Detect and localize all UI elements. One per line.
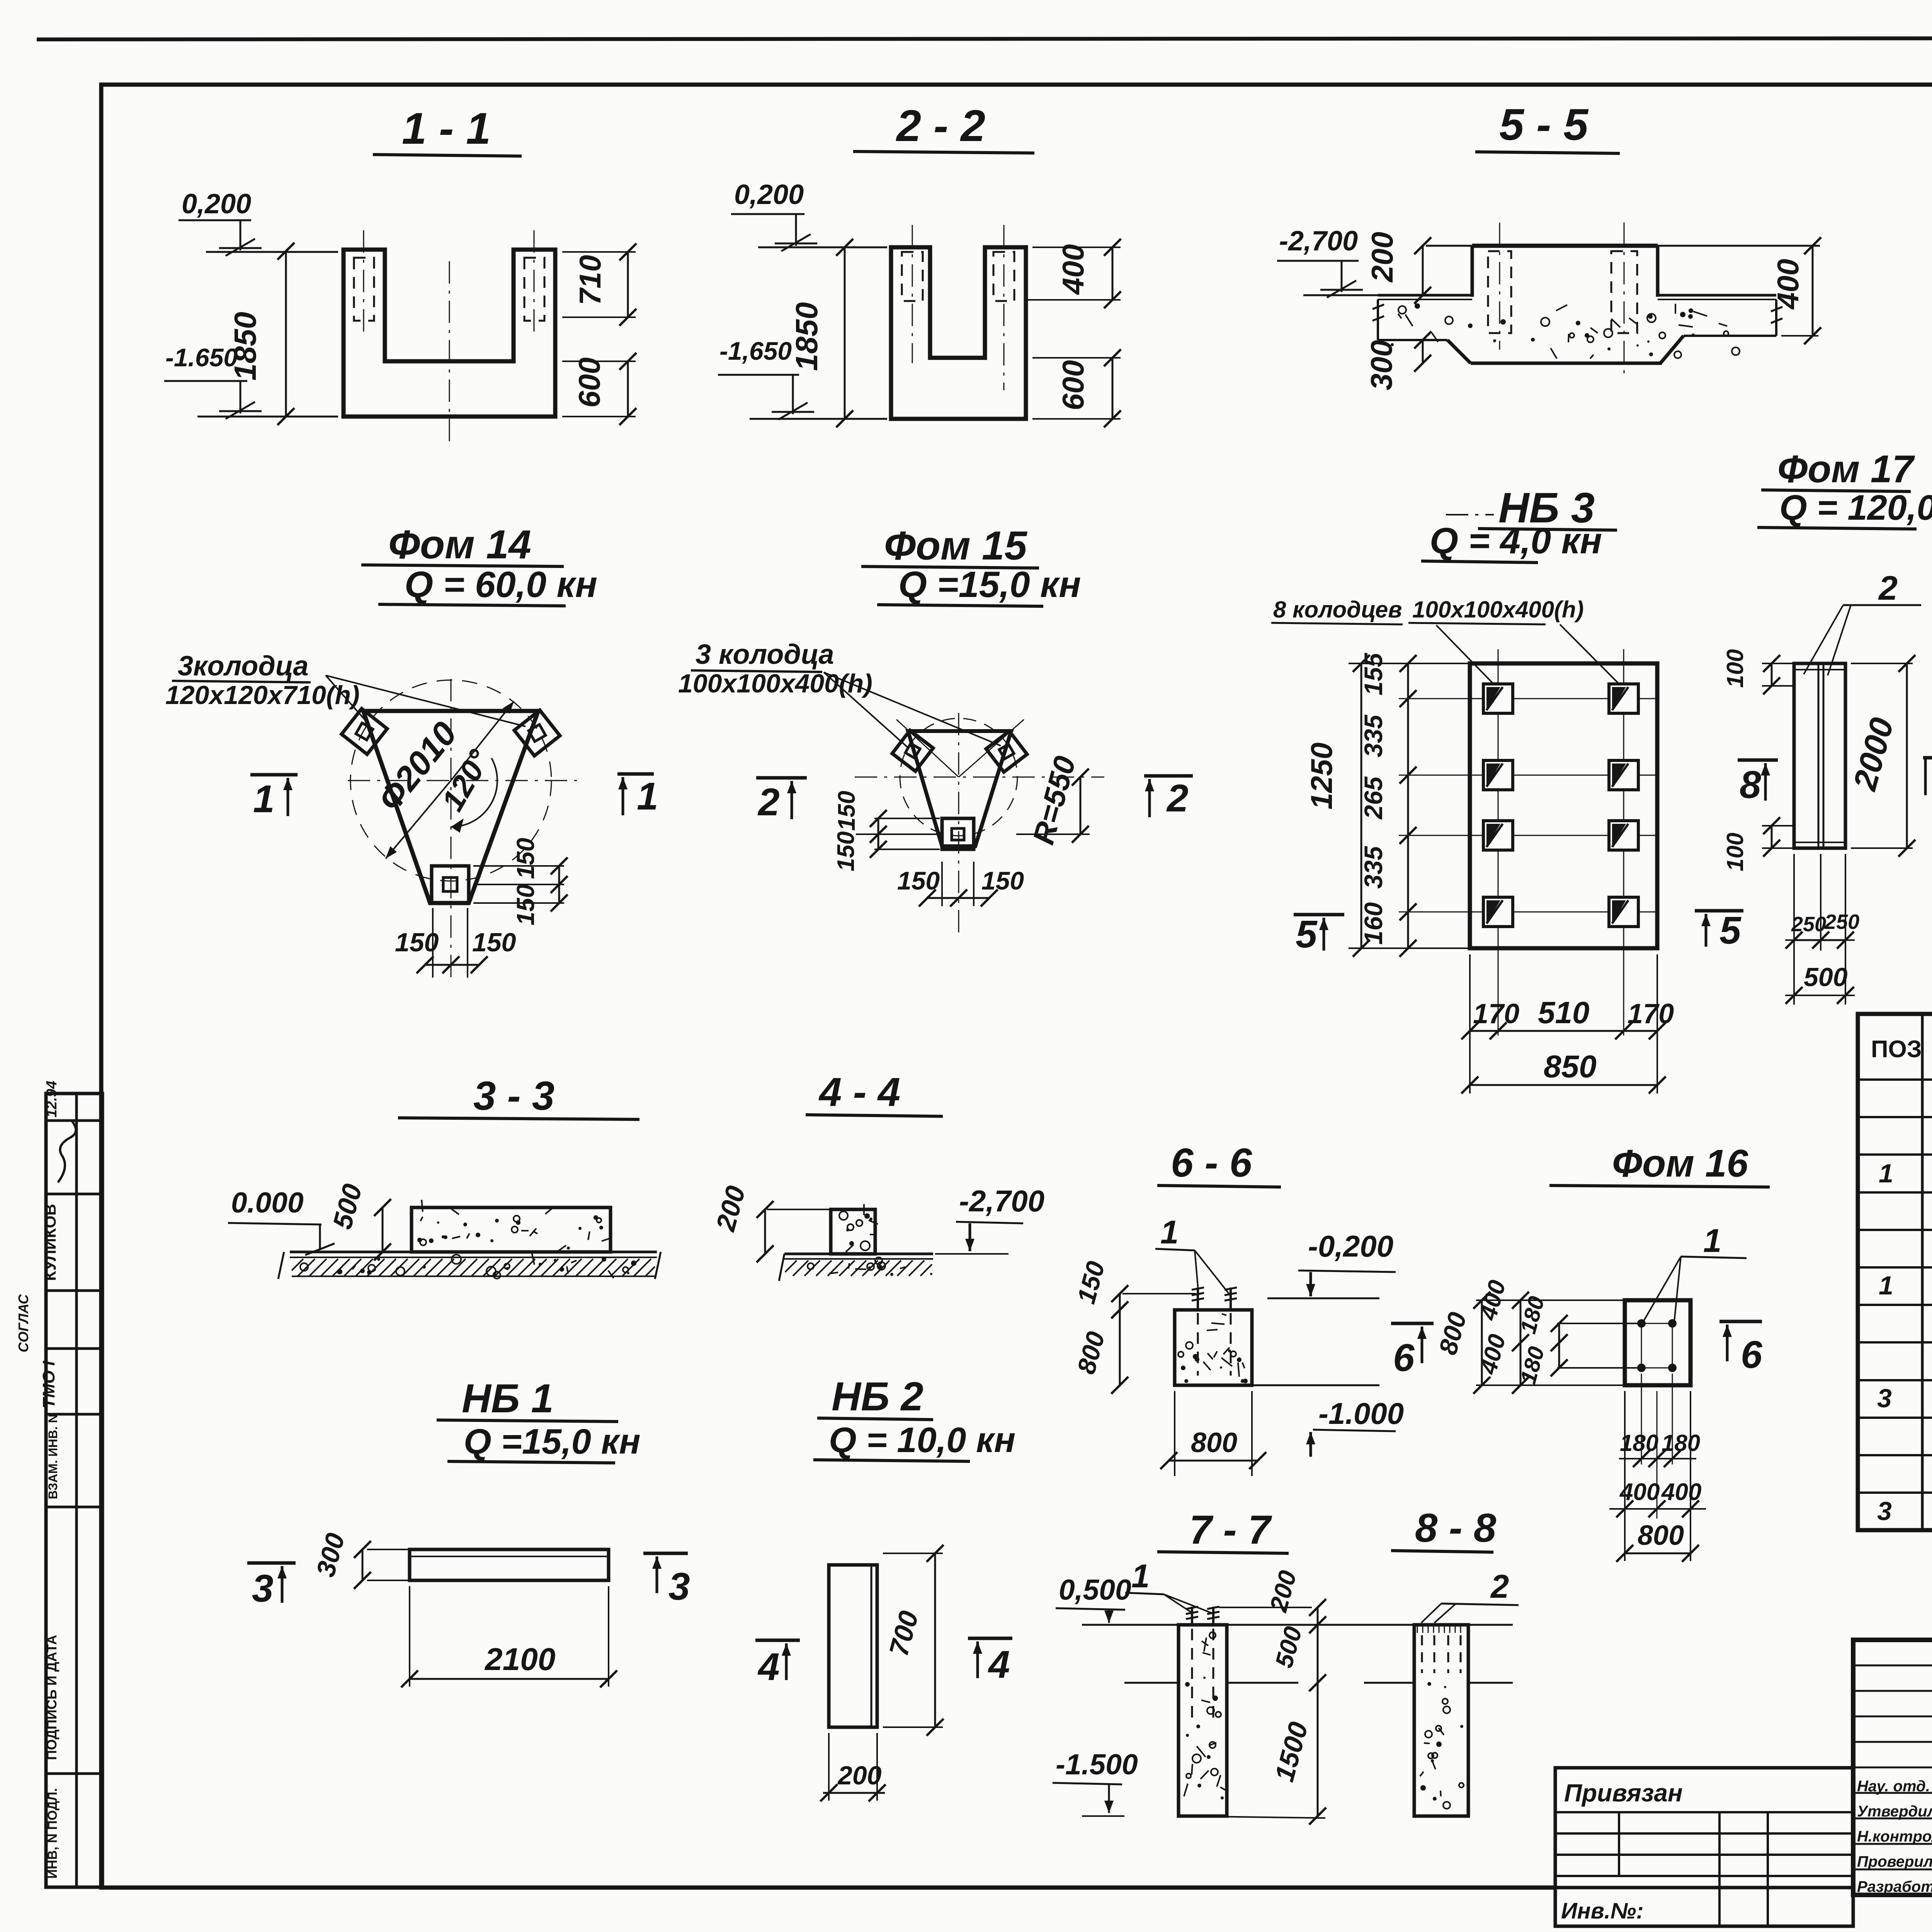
dimensions 150 800 left of 6-6: [1122, 1293, 1123, 1294]
svg-text:3: 3: [252, 1567, 274, 1610]
concrete speckle 5-5: [1629, 318, 1637, 324]
svg-text:-1.000: -1.000: [1318, 1396, 1404, 1430]
svg-text:150: 150: [395, 928, 439, 957]
НБ 1 plan rectangle: [410, 1549, 609, 1580]
bottom dimension 800 at 6-6: [1174, 1391, 1175, 1476]
3-3 ground strip end breaks: [278, 1252, 284, 1279]
sidebar signature squiggle: [58, 1121, 76, 1182]
ground line left of 1-1: [206, 251, 338, 253]
pocket top-right at Фом 14: [514, 710, 560, 756]
svg-text:ПОДПИСЬ И ДАТА: ПОДПИСЬ И ДАТА: [44, 1635, 60, 1760]
leader fan lines at Фом 15 center: [896, 719, 959, 777]
left sidebar stamp column: [46, 1094, 102, 1887]
6-6 block outline: [1175, 1310, 1252, 1385]
svg-text:КУЛИКОВ: КУЛИКОВ: [41, 1204, 59, 1281]
svg-text:4: 4: [988, 1643, 1010, 1686]
svg-text:120х120х710(h): 120х120х710(h): [165, 680, 360, 710]
svg-text:8 - 8: 8 - 8: [1415, 1505, 1497, 1551]
svg-text:2: 2: [1878, 569, 1898, 607]
svg-text:Q = 4,0 кн: Q = 4,0 кн: [1430, 520, 1602, 561]
Фом 15 bolt circle dashed: [900, 718, 1017, 836]
section mark 5 right at НБ 3: [1695, 909, 1743, 913]
svg-text:5: 5: [1296, 913, 1318, 956]
title block outer: [1853, 1640, 1932, 1895]
svg-text:150: 150: [472, 928, 516, 957]
svg-text:СОГЛАС: СОГЛАС: [15, 1294, 31, 1352]
svg-text:850: 850: [1544, 1049, 1597, 1084]
svg-text:150: 150: [897, 866, 940, 895]
svg-text:Фом 17: Фом 17: [1777, 447, 1915, 491]
НБ 3 title: [1446, 514, 1494, 515]
svg-text:ПОЗ: ПОЗ: [1871, 1036, 1922, 1063]
svg-text:7 - 7: 7 - 7: [1189, 1507, 1272, 1553]
svg-text:3: 3: [668, 1565, 690, 1608]
svg-text:ВЗАМ. ИНВ. N: ВЗАМ. ИНВ. N: [46, 1414, 60, 1499]
section mark 8 right at Фом 17: [1923, 756, 1932, 760]
Фом 17 plan outline: [1794, 663, 1845, 848]
svg-text:600: 600: [1056, 360, 1090, 410]
dimensions 150 150 right of bottom pocket Фом 14: [473, 865, 564, 867]
svg-text:Разработал: Разработал: [1857, 1878, 1932, 1895]
dimension 200 at НБ 2: [828, 1733, 830, 1801]
svg-text:1250: 1250: [1304, 742, 1338, 810]
floor line left of 6-6: [1122, 1293, 1196, 1294]
dimension 200 at 4-4: [767, 1209, 831, 1210]
bottom extension line 2-2: [750, 418, 887, 420]
svg-text:155: 155: [1359, 653, 1388, 696]
svg-text:500: 500: [1804, 963, 1848, 992]
dimension 100 top left of Фом 17: [1762, 663, 1794, 664]
svg-text:150: 150: [981, 866, 1024, 895]
bottom dimensions 180 180 at Фом 16: [1641, 1374, 1642, 1464]
Фом 14 horizontal axis: [348, 780, 577, 781]
Ф2010 diameter line at Фом 14: [386, 781, 451, 859]
Фом 16 plan square: [1625, 1300, 1690, 1385]
foundation 5-5 right lower side: [1775, 299, 1777, 336]
svg-text:ТМО I: ТМО I: [39, 1361, 58, 1408]
svg-text:1: 1: [1879, 1271, 1893, 1300]
foundation U outline 1-1: [344, 250, 555, 417]
svg-text:100: 100: [1722, 649, 1748, 688]
svg-text:100х100х400(h): 100х100х400(h): [1412, 597, 1584, 622]
bottom dimensions 150 150 at Фом 14: [432, 908, 434, 978]
svg-text:160: 160: [1359, 902, 1388, 945]
НБ 3 bottom dimension 850: [1470, 1084, 1657, 1086]
svg-text:600: 600: [572, 357, 606, 408]
section mark 1 right at Фом 14: [617, 772, 654, 776]
svg-text:-0,200: -0,200: [1308, 1229, 1393, 1263]
pocket top-left at Фом 15: [892, 730, 933, 771]
pocket top-left at Фом 14: [342, 709, 387, 754]
bottom dimension 500 at Фом 17: [1785, 995, 1855, 996]
svg-text:200: 200: [1365, 232, 1399, 283]
anchor dashes at 8-8: [1421, 1635, 1423, 1673]
svg-text:150: 150: [512, 838, 539, 879]
svg-text:0,500: 0,500: [1059, 1573, 1131, 1606]
svg-text:100: 100: [1722, 833, 1748, 871]
svg-text:6: 6: [1741, 1333, 1763, 1376]
dimension 2100 at НБ 1: [409, 1586, 410, 1687]
outer top border line: [37, 38, 1932, 39]
svg-text:150: 150: [833, 832, 859, 871]
НБ 3 pocket column axis right: [1623, 649, 1624, 1036]
svg-text:0.000: 0.000: [231, 1186, 304, 1219]
bottom extension line 1-1: [197, 416, 338, 418]
svg-text:Q =15,0 кн: Q =15,0 кн: [898, 564, 1081, 605]
привязан box: [1555, 1768, 1853, 1926]
svg-text:250: 250: [1824, 910, 1859, 934]
dimension 500 at 3-3: [382, 1207, 384, 1252]
anchor bolts with zigzag at 7-7: [1191, 1607, 1193, 1626]
lower soil line at 7-7: [1124, 1682, 1179, 1684]
6-6 block speckle: [1186, 1342, 1193, 1349]
svg-text:1: 1: [1879, 1159, 1893, 1188]
svg-text:2 - 2: 2 - 2: [896, 101, 985, 151]
leader lines at Фом 14: [326, 675, 369, 724]
8-8 top hatch cap: [1417, 1626, 1418, 1633]
svg-text:800: 800: [1191, 1427, 1237, 1458]
Фом 15 plan outline: [908, 731, 1011, 846]
svg-text:400: 400: [1056, 244, 1090, 295]
svg-text:1: 1: [1131, 1558, 1150, 1595]
Фом 16 anchor bolts: [1637, 1319, 1646, 1328]
4-4 ground strip end breaks: [779, 1254, 784, 1281]
НБ 3 plan rectangle: [1470, 663, 1657, 948]
svg-text:5: 5: [1719, 909, 1742, 952]
dimension 600 at 1-1: [562, 361, 636, 362]
svg-text:335: 335: [1359, 846, 1388, 889]
svg-text:-2,700: -2,700: [959, 1184, 1044, 1218]
title block signature grid: [1853, 1665, 1932, 1667]
bottom extension at 7-7: [1179, 1816, 1325, 1818]
svg-text:8 колодцев: 8 колодцев: [1273, 597, 1402, 622]
svg-text:Фом 14: Фом 14: [388, 522, 531, 567]
dimension R=550 at Фом 15: [1016, 833, 1090, 835]
foundation 5-5 right pedestal edge: [1656, 246, 1660, 297]
svg-text:Фом 15: Фом 15: [884, 523, 1027, 568]
section mark 2 right at Фом 15: [1144, 774, 1193, 778]
section mark 4 right at НБ 2: [968, 1637, 1012, 1640]
ground line at 7-7: [1082, 1624, 1179, 1626]
section mark 4 left at НБ 2: [755, 1639, 800, 1642]
svg-text:3: 3: [1877, 1497, 1892, 1526]
anchor bolts with zigzag at 6-6: [1197, 1287, 1199, 1311]
svg-text:400: 400: [1661, 1479, 1701, 1505]
svg-text:170: 170: [1473, 998, 1519, 1029]
Фом 15 horizontal axis: [855, 777, 1104, 778]
3-3 ground strip hatch: [291, 1258, 293, 1260]
dimension 300 at НБ 1: [367, 1549, 410, 1550]
svg-text:1: 1: [253, 777, 275, 821]
pocket bottom at Фом 15: [942, 818, 974, 849]
Фом 15 vertical axis: [958, 713, 959, 935]
svg-text:-2,700: -2,700: [1279, 226, 1358, 257]
svg-text:-1,650: -1,650: [719, 337, 792, 365]
svg-text:8: 8: [1740, 763, 1761, 806]
svg-text:2100: 2100: [484, 1642, 555, 1677]
Фом 14 vertical axis: [451, 679, 452, 978]
svg-text:335: 335: [1359, 714, 1388, 757]
ground line at 8-8: [1333, 1624, 1414, 1626]
4-4 block: [831, 1209, 875, 1254]
anchor well right 2-2: [993, 252, 1014, 301]
svg-text:Q =15,0 кн: Q =15,0 кн: [464, 1422, 641, 1461]
4-4 block speckle: [870, 1234, 876, 1235]
section mark 2 left at Фом 15: [756, 776, 807, 780]
svg-text:Н.контроль: Н.контроль: [1857, 1828, 1932, 1845]
dimension 700 at НБ 2: [883, 1553, 943, 1554]
bottom dimensions 400 400 at Фом 16: [1624, 1391, 1626, 1561]
svg-text:ИНВ, N ПОДЛ.: ИНВ, N ПОДЛ.: [45, 1788, 60, 1879]
dimension 300 at 5-5: [1422, 340, 1424, 363]
svg-text:250: 250: [1791, 913, 1826, 936]
dimension 200 at 5-5: [1422, 246, 1424, 295]
svg-text:180: 180: [1620, 1430, 1658, 1456]
svg-text:1: 1: [637, 775, 658, 818]
Фом 17 end cap lines: [1794, 669, 1845, 670]
svg-text:3: 3: [1877, 1384, 1892, 1413]
7-7 pier outline: [1179, 1625, 1227, 1816]
level line -2.700 at 5-5: [1303, 294, 1379, 296]
Фом 16 bolt connection lines: [1641, 1323, 1672, 1324]
4-4 base plate double line: [784, 1253, 933, 1255]
svg-text:Q = 10,0 кн: Q = 10,0 кн: [829, 1420, 1015, 1460]
ground line left of 2-2: [758, 247, 887, 248]
foundation 5-5 left pedestal edge: [1471, 246, 1474, 297]
svg-text:1850: 1850: [789, 302, 824, 371]
pocket bottom at Фом 14: [432, 866, 469, 903]
svg-text:400: 400: [1771, 259, 1805, 310]
dimension 2000 right of Фом 17: [1851, 663, 1913, 664]
section mark 3 right at НБ 1: [643, 1552, 688, 1555]
svg-text:-1.650: -1.650: [165, 343, 238, 372]
svg-text:3 колодца: 3 колодца: [696, 639, 834, 670]
svg-text:1: 1: [1160, 1214, 1179, 1251]
svg-text:Q = 120,0 кн: Q = 120,0 кн: [1779, 488, 1932, 527]
lower soil line at 8-8: [1364, 1682, 1414, 1684]
parts table grid: [1858, 1014, 1932, 1530]
svg-text:2: 2: [1166, 777, 1189, 820]
svg-text:6: 6: [1393, 1336, 1415, 1379]
svg-text:800: 800: [1638, 1520, 1684, 1551]
3-3 slab block: [412, 1207, 611, 1252]
bottom dimension 800 at Фом 16: [1625, 1553, 1690, 1554]
dimension 400 at 5-5: [1781, 335, 1818, 337]
anchor well left 2-2: [902, 252, 923, 301]
dimension 1850 at 1-1: [285, 251, 287, 417]
svg-text:300: 300: [1364, 340, 1398, 390]
foundation 5-5 top edge: [1426, 245, 1820, 247]
pocket top-right at Фом 15: [986, 731, 1027, 772]
svg-text:Q = 60,0 кн: Q = 60,0 кн: [405, 564, 597, 605]
svg-text:150: 150: [833, 791, 860, 831]
floor line right of 6-6: [1267, 1298, 1379, 1299]
Фом 14 bolt circle dashed: [350, 680, 551, 881]
svg-text:12.94: 12.94: [44, 1081, 60, 1117]
7-7 pier speckle: [1202, 1653, 1211, 1655]
svg-text:5 - 5: 5 - 5: [1499, 100, 1589, 150]
svg-text:3 - 3: 3 - 3: [473, 1073, 554, 1119]
leader lines at Фом 15: [824, 672, 908, 748]
section mark 1 left at Фом 14: [250, 773, 298, 777]
svg-text:180: 180: [1662, 1430, 1700, 1456]
svg-text:НБ 1: НБ 1: [462, 1376, 554, 1421]
section mark 6 right at Фом 16: [1719, 1320, 1762, 1323]
НБ 3 bottom dimensions 170 510 170: [1469, 954, 1471, 1094]
foundation U outline 2-2: [891, 247, 1026, 419]
svg-text:Фом 16: Фом 16: [1612, 1142, 1749, 1185]
svg-text:Утвердил: Утвердил: [1857, 1803, 1932, 1820]
svg-text:-1.500: -1.500: [1056, 1748, 1138, 1781]
dimension 710 at 1-1: [562, 251, 636, 253]
left dimensions 800 400 400 180 180 at Фом 16: [1476, 1299, 1625, 1301]
Фом 17 inner joint lines: [1818, 663, 1820, 848]
bottom dimensions 250 250 at Фом 17: [1793, 854, 1795, 1005]
svg-text:Нау. отд.: Нау. отд.: [1857, 1778, 1930, 1795]
svg-text:Проверил: Проверил: [1857, 1853, 1932, 1870]
svg-text:6 - 6: 6 - 6: [1171, 1140, 1252, 1185]
НБ 3 pocket rows and pockets: [1399, 698, 1657, 699]
svg-text:170: 170: [1628, 998, 1674, 1029]
8-8 pier speckle: [1420, 1772, 1423, 1776]
bottom dimensions 150 150 at Фом 15: [941, 862, 943, 906]
foundation 5-5 lower outline: [1378, 339, 1447, 341]
svg-text:510: 510: [1538, 995, 1589, 1030]
anchor well left 5-5: [1488, 251, 1511, 333]
Фом 14 plan triangle outline: [363, 711, 538, 903]
section mark 6 left at Фом 16: [1391, 1322, 1434, 1325]
НБ 3 overall dimension 1250: [1361, 663, 1362, 948]
floor slab double line left 5-5: [1378, 294, 1472, 297]
svg-text:0,200: 0,200: [182, 189, 251, 219]
svg-text:400: 400: [1619, 1479, 1660, 1505]
3-3 base plate double line: [290, 1251, 657, 1253]
section mark 5 left at НБ 3: [1294, 913, 1344, 917]
center axis 1-1: [449, 261, 450, 444]
dimensions 200 500 1500 at 7-7: [1317, 1607, 1319, 1816]
НБ 2 plan rectangle: [829, 1565, 877, 1727]
svg-text:100х100х400(h): 100х100х400(h): [678, 669, 872, 698]
8-8 pier outline: [1414, 1625, 1468, 1816]
dimension 600 at 2-2: [1032, 357, 1121, 359]
3-3 slab speckle: [452, 1236, 460, 1238]
floor slab double line right 5-5: [1658, 294, 1776, 297]
svg-text:3колодца: 3колодца: [178, 651, 308, 682]
dimension 400 at 2-2: [1032, 247, 1121, 248]
НБ 3 left chain dimension 155 335 265 335 160: [1349, 663, 1470, 664]
svg-text:1: 1: [1703, 1223, 1721, 1259]
dimensions 150 150 left of Фом 15: [874, 818, 940, 819]
svg-text:710: 710: [573, 255, 607, 305]
svg-text:2: 2: [1490, 1568, 1509, 1605]
svg-text:Привязан: Привязан: [1564, 1779, 1683, 1807]
svg-text:2: 2: [757, 781, 780, 824]
section mark 8 left at Фом 17: [1738, 759, 1778, 762]
leader lines at НБ 3: [1436, 625, 1495, 686]
dimension 1850 at 2-2: [844, 247, 846, 419]
anchor well right 1-1: [524, 258, 544, 321]
svg-text:200: 200: [837, 1761, 882, 1790]
svg-text:НБ 2: НБ 2: [832, 1374, 923, 1419]
НБ 3 pocket column axis left: [1498, 649, 1499, 1036]
4-4 ground strip hatch: [784, 1260, 786, 1261]
section mark 3 left at НБ 1: [247, 1561, 296, 1565]
anchor well right 5-5: [1611, 251, 1637, 333]
foundation 5-5 left lower side: [1377, 299, 1379, 340]
svg-text:4 - 4: 4 - 4: [818, 1070, 900, 1115]
svg-text:1 - 1: 1 - 1: [402, 104, 491, 153]
anchor well left 1-1: [354, 258, 374, 321]
svg-text:265: 265: [1359, 776, 1388, 820]
svg-text:150: 150: [512, 884, 539, 925]
120 degree angle arc at Фом 14: [451, 758, 497, 827]
svg-text:4: 4: [757, 1645, 780, 1689]
svg-text:Инв.№:: Инв.№:: [1561, 1898, 1644, 1923]
dimension 100 bottom left of Фом 17: [1762, 825, 1794, 827]
svg-text:0,200: 0,200: [734, 179, 804, 210]
